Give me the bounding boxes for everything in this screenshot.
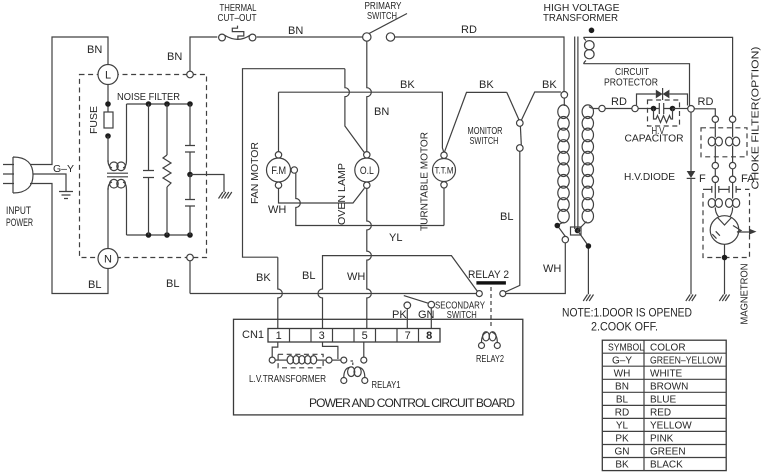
label SECONDARY SWITCH (435, 300, 485, 322)
bottom bus of filter (127, 234, 191, 236)
svg-text:SYMBOL: SYMBOL (608, 343, 644, 354)
wire node to choke left column (694, 109, 715, 116)
core strap box (571, 227, 582, 235)
connector (599, 105, 605, 111)
junction dot primary bottom (555, 223, 561, 229)
wire BK feed down to pin1 (hops long bus) (278, 257, 283, 328)
svg-text:YL: YL (389, 232, 402, 244)
relay 1 contacts (341, 357, 367, 366)
svg-text:G–Y: G–Y (612, 356, 632, 367)
chassis ground hash (219, 192, 232, 199)
turntable motor T.T.M (433, 152, 456, 188)
svg-text:BLUE: BLUE (650, 395, 676, 406)
terminal N (98, 249, 118, 269)
choke L2 (726, 122, 740, 162)
svg-text:RED: RED (650, 408, 671, 419)
svg-text:FAN MOTOR: FAN MOTOR (249, 142, 261, 204)
svg-text:7: 7 (405, 330, 411, 342)
wire secondary RD line (605, 108, 632, 110)
svg-text:SWITCH: SWITCH (470, 135, 499, 147)
svg-text:PROTECTOR: PROTECTOR (604, 77, 658, 89)
svg-text:NOISE FILTER: NOISE FILTER (117, 91, 180, 103)
svg-text:G–Y: G–Y (53, 163, 74, 175)
wire RD to HV transformer (395, 37, 564, 92)
wire WH down to relay2 (506, 243, 566, 294)
HVT secondary winding (582, 105, 593, 223)
svg-text:RELAY2: RELAY2 (476, 353, 504, 365)
wire turntable top diagonal to bus (445, 92, 507, 151)
wire filament top lead RD to choke (584, 37, 733, 116)
feedthrough capacitor left (703, 183, 723, 195)
choke filter dashed box (701, 128, 747, 157)
junction dots top bus (146, 101, 193, 107)
svg-text:WH: WH (543, 263, 561, 275)
svg-text:BL: BL (616, 395, 629, 406)
svg-text:FA: FA (741, 173, 755, 185)
svg-text:BK: BK (542, 79, 557, 91)
choke filter connectors top (712, 116, 736, 122)
wire pin5 to relay1 (363, 342, 365, 357)
note text (562, 306, 692, 334)
common-mode choke T1 lower winding (108, 179, 127, 235)
thermal cut-out switch (219, 26, 256, 41)
color code table (602, 340, 726, 470)
wire BL pin3 up and over to relay2 (hops long bus) (318, 256, 477, 329)
svg-text:POWER: POWER (6, 217, 33, 229)
svg-text:8: 8 (426, 330, 432, 342)
choke core (107, 173, 128, 177)
wire turntable bottom to YL bus (443, 188, 445, 226)
svg-text:MAGNETRON: MAGNETRON (739, 264, 751, 325)
svg-text:BK: BK (479, 79, 494, 91)
svg-text:T.T.M: T.T.M (435, 165, 454, 176)
label HIGH VOLTAGE TRANSFORMER (543, 2, 620, 24)
magnetron V1 (710, 216, 756, 245)
node BL on filter box (187, 254, 194, 261)
wire pin1 to LVT (272, 342, 278, 357)
relay 2 contacts (476, 291, 506, 297)
ground earth (3-bar) (59, 192, 73, 199)
label CIRCUIT PROTECTOR (604, 66, 658, 89)
svg-text:NOTE:1.DOOR IS OPENED: NOTE:1.DOOR IS OPENED (562, 306, 692, 320)
svg-text:5: 5 (362, 330, 368, 342)
junction dot (586, 243, 592, 249)
svg-text:BL: BL (302, 270, 315, 282)
wire PK to pin7 (406, 309, 408, 329)
common-mode choke T1 upper winding (108, 104, 127, 171)
connector 2 (632, 105, 638, 111)
wire BN node up to thermal cutout (190, 37, 217, 71)
svg-text:GREEN: GREEN (650, 447, 686, 458)
chassis ground secondary (583, 295, 593, 302)
svg-text:RD: RD (615, 408, 629, 419)
svg-text:YELLOW: YELLOW (650, 421, 692, 432)
svg-text:RD: RD (461, 24, 477, 36)
junction dot core strap (575, 228, 581, 234)
circuit board outline (234, 319, 523, 415)
label THERMAL CUT-OUT (218, 2, 257, 24)
bleed resistor R2 (654, 109, 673, 123)
svg-text:H.V.DIODE: H.V.DIODE (624, 171, 675, 183)
svg-text:RD: RD (698, 96, 714, 108)
svg-text:YL: YL (616, 421, 629, 432)
wire secondary bottom to ground (578, 222, 589, 295)
svg-text:CHOKE FILTER(OPTION): CHOKE FILTER(OPTION) (750, 47, 762, 190)
wire L to fuse (107, 85, 109, 113)
magnetron dashed box (703, 193, 750, 258)
node HV transformer primary top (561, 92, 568, 99)
wire BN to primary switch (257, 36, 363, 38)
secondary switch (404, 296, 435, 309)
svg-text:O.L: O.L (360, 165, 374, 177)
wire branch to board pin1 feed (243, 69, 345, 258)
transformer core (575, 37, 578, 230)
HV capacitor C4 (638, 103, 675, 114)
svg-text:OVEN LAMP: OVEN LAMP (336, 163, 348, 225)
capacitor C2 upper (185, 104, 195, 175)
svg-text:L.V.TRANSFORMER: L.V.TRANSFORMER (249, 373, 326, 385)
svg-text:BN: BN (167, 51, 182, 63)
fan motor F.M (267, 152, 298, 189)
junction dots bottom bus (146, 232, 193, 238)
noise filter dashed box (80, 75, 207, 258)
svg-text:BL: BL (166, 278, 179, 290)
svg-text:INPUT: INPUT (6, 205, 31, 217)
svg-text:WHITE: WHITE (650, 369, 683, 380)
wire oven lamp bottom to pin5 (hops YL, BL, long bus) (367, 188, 372, 328)
wire G-Y to earth (33, 174, 66, 191)
svg-text:PINK: PINK (650, 434, 674, 445)
connector WH (562, 236, 568, 242)
svg-text:GN: GN (615, 447, 630, 458)
svg-text:RD: RD (611, 96, 627, 108)
junction dot above transformer (589, 28, 595, 34)
chassis ground diode (686, 295, 696, 302)
svg-text:BN: BN (87, 44, 102, 56)
label MONITOR SWITCH (468, 125, 503, 147)
svg-text:RELAY1: RELAY1 (372, 379, 401, 391)
svg-text:BLACK: BLACK (650, 460, 683, 471)
wire to HV node (673, 108, 688, 110)
svg-text:WH: WH (614, 369, 631, 380)
wire plug neutral to bottom (30, 184, 108, 294)
wire secondary top lead (589, 107, 599, 109)
svg-text:2.COOK OFF.: 2.COOK OFF. (591, 320, 658, 334)
svg-text:TURNTABLE MOTOR: TURNTABLE MOTOR (419, 132, 431, 231)
svg-text:WH: WH (347, 271, 365, 283)
svg-text:POWER AND CONTROL CIRCUIT: POWER AND CONTROL CIRCUIT BOARD (309, 396, 515, 410)
wire filament bottom lead to HV node (584, 64, 690, 106)
relay 2 contact bar (476, 281, 506, 284)
svg-text:BROWN: BROWN (650, 382, 688, 393)
svg-text:BN: BN (288, 25, 303, 37)
wire LVT to relay1 contact (332, 359, 341, 361)
circuit protector bypass diode (637, 88, 688, 106)
wire bus to fan motor top (278, 92, 280, 151)
node HV (688, 106, 695, 113)
svg-text:CN1: CN1 (242, 329, 264, 341)
node dot below fuse (105, 133, 111, 139)
label PRIMARY SWITCH (365, 0, 402, 22)
capacitor C3 lower (185, 175, 195, 236)
monitor switch (507, 92, 561, 151)
long BL bus to relay2 (190, 293, 476, 295)
wire monitor switch down BL to relay2 (505, 151, 520, 292)
capacitor C1 (143, 104, 154, 235)
svg-text:BK: BK (615, 460, 629, 471)
svg-text:BL: BL (500, 211, 513, 223)
connectors FA (729, 162, 735, 182)
wire tap to chassis ground (190, 175, 224, 193)
oven lamp O.L (355, 152, 379, 189)
svg-text:RELAY 2: RELAY 2 (468, 269, 509, 281)
HVT filament winding (584, 37, 595, 63)
svg-text:FUSE: FUSE (88, 106, 100, 134)
wire BL node down to long bus (189, 261, 191, 294)
svg-text:F.M: F.M (271, 165, 286, 177)
svg-text:BN: BN (615, 382, 629, 393)
node BN on filter box (187, 71, 194, 78)
wire pin3 to relay1 contact (323, 342, 338, 359)
svg-text:BN: BN (374, 106, 389, 118)
svg-text:BK: BK (256, 272, 271, 284)
svg-text:L: L (105, 70, 111, 82)
input power plug (3, 157, 33, 193)
HV capacitor dashed box (648, 100, 680, 126)
HVT primary winding (558, 98, 569, 223)
wire BN vertical primary switch to oven lamp (hops BK bus) (367, 41, 372, 151)
table text (608, 343, 722, 471)
svg-text:BK: BK (400, 79, 415, 91)
svg-text:WH: WH (268, 204, 286, 216)
choke L1 (708, 122, 722, 162)
label INPUT POWER (6, 205, 33, 229)
BK bus (279, 92, 444, 151)
HV diode D1 (687, 171, 696, 178)
svg-text:COLOR: COLOR (650, 343, 686, 354)
wire plug live to top (30, 37, 108, 165)
resistor R1 (163, 104, 171, 235)
relay 1 coil (341, 367, 368, 384)
wire primary bottom (557, 222, 565, 236)
node dot cap tap (187, 172, 193, 178)
wire fuse to choke (107, 136, 109, 162)
svg-text:CUT–OUT: CUT–OUT (218, 12, 257, 24)
top bus of filter (127, 103, 191, 105)
svg-text:PK: PK (615, 434, 629, 445)
wire diagonal into oven lamp top (hops BK bus) (345, 69, 365, 153)
svg-text:GREEN–YELLOW: GREEN–YELLOW (650, 356, 722, 367)
svg-text:F: F (699, 173, 706, 185)
label H.V CAPACITOR (625, 125, 684, 145)
svg-text:3: 3 (319, 330, 325, 342)
svg-text:BL: BL (88, 279, 101, 291)
junction dot on box edge (722, 255, 728, 261)
svg-text:SWITCH: SWITCH (367, 10, 397, 22)
node dot above fuse (105, 101, 111, 107)
wire node down to HV diode (690, 112, 692, 171)
connectors F (712, 162, 718, 182)
svg-text:1: 1 (276, 330, 282, 342)
fuse F1 (104, 112, 113, 128)
wire magnetron to ground (724, 244, 726, 294)
terminal L (98, 65, 118, 85)
feedthrough capacitor right (723, 183, 750, 195)
wire diode to ground (690, 178, 692, 294)
svg-text:CAPACITOR: CAPACITOR (625, 133, 684, 145)
chassis ground magnetron (719, 295, 729, 302)
wire choke to N (107, 188, 109, 249)
svg-text:TRANSFORMER: TRANSFORMER (543, 12, 618, 24)
wire GN to pin8 (430, 308, 432, 329)
wire fan motor right terminal to YL bus (hops WH) (296, 173, 444, 226)
magnetron filament chokes (708, 195, 740, 217)
svg-text:N: N (104, 254, 112, 266)
L.V. transformer (269, 354, 332, 368)
relay 2 coil (479, 332, 501, 349)
relay 2 mechanical link (490, 287, 492, 329)
connector CN1 (268, 329, 440, 343)
primary switch S1 (363, 14, 407, 42)
wire fan motor bottom WH (279, 188, 365, 203)
